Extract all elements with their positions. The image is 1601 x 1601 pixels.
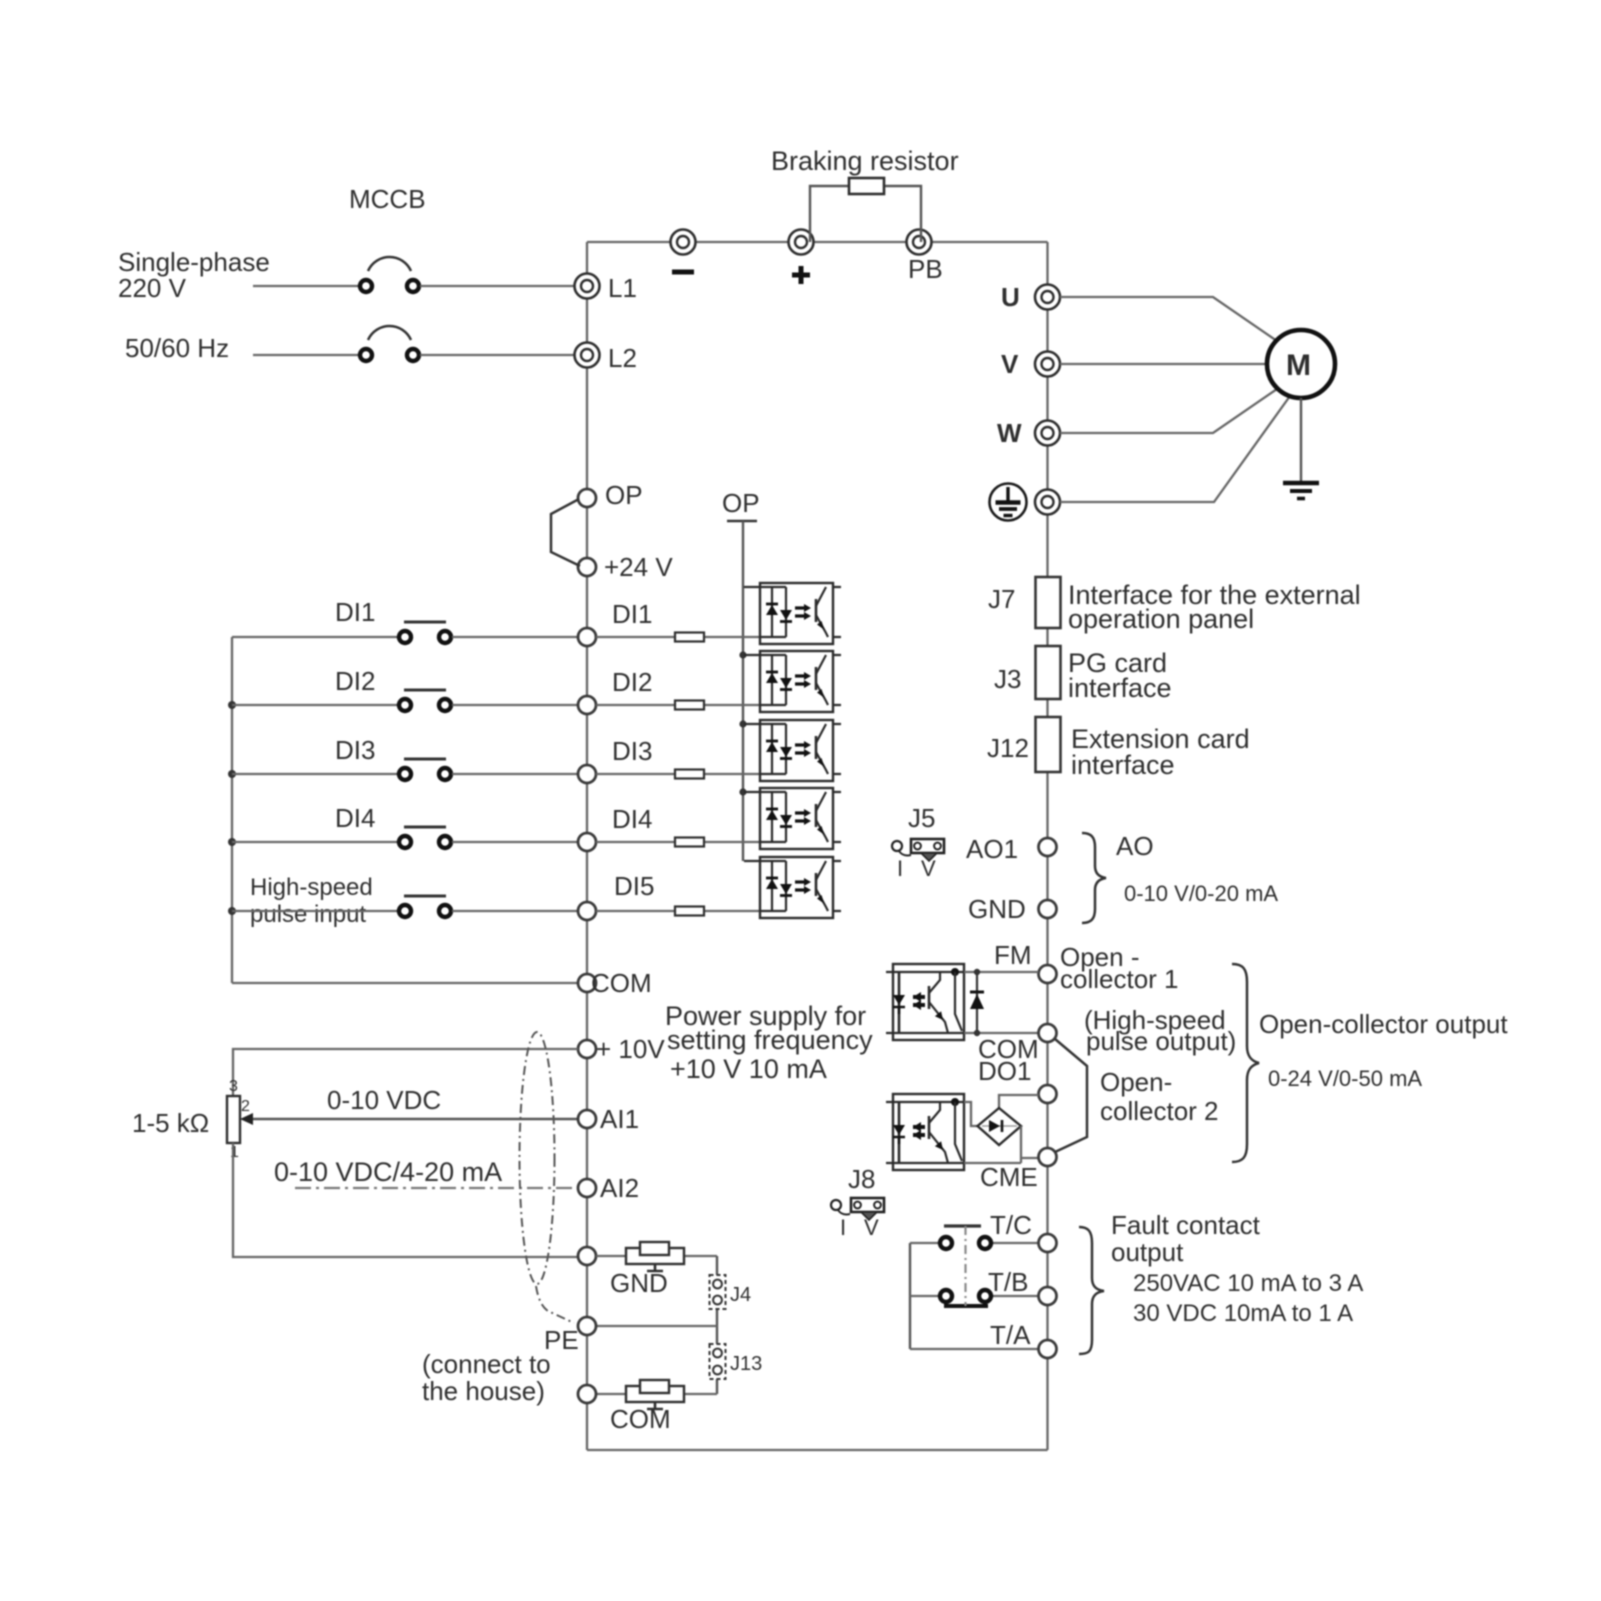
- svg-text:output: output: [1111, 1237, 1184, 1267]
- wire V to motor: [1060, 363, 1267, 365]
- label 250VAC rating: [1133, 1270, 1363, 1297]
- switch DI2: [228, 690, 578, 711]
- label Single-phase 220 V: [118, 247, 270, 303]
- svg-text:DI5: DI5: [614, 871, 654, 901]
- connector J3: [994, 646, 1061, 699]
- optocoupler DI1: [744, 583, 841, 644]
- wire FM emitter to COM: [964, 1032, 1039, 1034]
- brace fault contact group: [1079, 1227, 1104, 1354]
- label MCCB: [349, 184, 426, 214]
- diode bridge DO1: [978, 1108, 1022, 1145]
- node OP tie bar: [722, 488, 760, 521]
- svg-text:J13: J13: [730, 1353, 762, 1375]
- terminal COM bottom: [578, 1385, 671, 1434]
- terminal L1: [575, 273, 637, 303]
- label Fault contact output: [1111, 1210, 1261, 1267]
- optocoupler DI5: [744, 857, 841, 918]
- terminal L2: [575, 343, 637, 374]
- wire FM collector: [964, 971, 1039, 973]
- breaker MCCB pole 2: [360, 326, 419, 361]
- label Extension card interface: [1071, 724, 1250, 780]
- svg-text:DI2: DI2: [612, 667, 652, 697]
- svg-text:Open-: Open-: [1100, 1067, 1172, 1097]
- label Braking resistor: [771, 146, 959, 176]
- svg-text:Braking resistor: Braking resistor: [771, 146, 959, 176]
- label AO: [1116, 831, 1154, 861]
- terminal DI3: [578, 736, 652, 783]
- svg-text:setting frequency: setting frequency: [667, 1025, 873, 1055]
- brace open-collector output group: [1232, 964, 1259, 1162]
- node junction DI2 opto: [739, 651, 746, 658]
- svg-text:COM: COM: [591, 968, 652, 998]
- svg-text:High-speed: High-speed: [250, 874, 373, 901]
- svg-text:M: M: [1286, 349, 1311, 382]
- svg-text:DI2: DI2: [335, 666, 375, 696]
- terminal GND analog: [578, 1247, 668, 1298]
- resistor DI3: [596, 770, 760, 779]
- wire PE to motor: [1060, 396, 1290, 502]
- terminal plus: [789, 230, 814, 285]
- optocoupler DI3: [744, 720, 841, 781]
- terminal T/A: [990, 1320, 1057, 1358]
- node junction DI4 opto: [739, 788, 746, 795]
- svg-text:DI1: DI1: [612, 599, 652, 629]
- terminal AI1: [578, 1104, 639, 1134]
- label 30VDC rating: [1133, 1300, 1353, 1327]
- jumper J4: [710, 1275, 752, 1309]
- label Power supply for setting frequency: [665, 1001, 873, 1084]
- terminal W: [997, 418, 1060, 448]
- svg-text:the house): the house): [422, 1376, 545, 1406]
- terminal minus: [671, 230, 696, 273]
- label 1-5 kOhm: [132, 1108, 209, 1138]
- label PG card interface: [1068, 648, 1172, 703]
- terminal T/C: [990, 1210, 1057, 1252]
- svg-text:collector 2: collector 2: [1100, 1096, 1219, 1126]
- brace AO group: [1082, 833, 1106, 923]
- label 0-24V 0-50mA: [1268, 1066, 1422, 1091]
- terminal +24V: [578, 552, 673, 582]
- breaker MCCB pole 1: [360, 257, 419, 292]
- svg-text:DI3: DI3: [335, 735, 375, 765]
- label interface external operation panel: [1068, 580, 1361, 634]
- label DO1: [978, 1056, 1031, 1086]
- svg-text:OP: OP: [722, 488, 760, 518]
- label 0-10 VDC 4-20 mA: [274, 1157, 502, 1187]
- label Open-collector 1: [1060, 942, 1179, 994]
- label DI2 switch: [335, 666, 375, 696]
- terminal PE output: [1035, 490, 1060, 515]
- svg-text:Fault contact: Fault contact: [1111, 1210, 1261, 1240]
- svg-text:AO: AO: [1116, 831, 1154, 861]
- svg-text:interface: interface: [1071, 750, 1175, 780]
- switch selector OP/+24V: [551, 499, 580, 566]
- connector J12: [987, 717, 1061, 772]
- svg-text:DI4: DI4: [612, 804, 652, 834]
- svg-text:interface: interface: [1068, 673, 1172, 703]
- wire right terminal bus: [1046, 242, 1048, 1450]
- label 0-10V 0-20mA: [1124, 881, 1278, 906]
- label DI1 switch: [335, 597, 375, 627]
- terminal DI2: [578, 667, 652, 714]
- terminal AI2: [578, 1173, 639, 1203]
- filter GND: [596, 1242, 717, 1271]
- wire DI left bus: [231, 637, 233, 983]
- svg-text:GND: GND: [968, 894, 1026, 924]
- svg-text:+10 V 10 mA: +10 V 10 mA: [670, 1054, 827, 1084]
- svg-text:AI2: AI2: [600, 1173, 639, 1203]
- terminal V: [1001, 349, 1060, 379]
- svg-text:MCCB: MCCB: [349, 184, 426, 214]
- switch DI3: [228, 759, 578, 780]
- switch DI4: [228, 827, 578, 848]
- svg-text:CME: CME: [980, 1162, 1038, 1192]
- svg-text:220 V: 220 V: [118, 273, 187, 303]
- terminal T/B: [988, 1267, 1057, 1305]
- connector J7: [988, 577, 1061, 628]
- svg-text:3: 3: [229, 1078, 238, 1095]
- jumper J5: [892, 803, 944, 881]
- terminal COM digital: [578, 968, 652, 998]
- wire W to motor: [1060, 389, 1277, 433]
- svg-text:50/60 Hz: 50/60 Hz: [125, 333, 229, 363]
- terminal DI4: [578, 804, 652, 851]
- resistor DI2: [596, 701, 760, 710]
- terminal GND analog out: [968, 894, 1057, 924]
- label 0-10 VDC: [327, 1085, 441, 1115]
- svg-text:J5: J5: [908, 803, 935, 833]
- wire AI1 wiper: [240, 1113, 578, 1125]
- wire +10V to potentiometer: [233, 1049, 578, 1096]
- jumper J13: [710, 1344, 763, 1379]
- ground symbol protective earth circle: [990, 484, 1027, 521]
- svg-text:+24 V: +24 V: [604, 552, 673, 582]
- svg-text:COM: COM: [610, 1404, 671, 1434]
- optocoupler FM output: [886, 964, 964, 1040]
- diode FM clamp: [970, 969, 984, 1036]
- wire OP vertical rail: [742, 521, 744, 861]
- label High-speed pulse output: [1084, 1005, 1236, 1056]
- svg-text:0-10 VDC/4-20 mA: 0-10 VDC/4-20 mA: [274, 1157, 502, 1187]
- svg-text:+ 10V: + 10V: [596, 1034, 665, 1064]
- bracket Open-collector 2 group: [1055, 1039, 1087, 1152]
- svg-text:J4: J4: [730, 1284, 751, 1306]
- label FM: [994, 940, 1032, 970]
- relay fault contact: [910, 1226, 1039, 1349]
- label Open-collector 2: [1100, 1067, 1219, 1126]
- terminal U: [1001, 282, 1060, 312]
- label 50/60 Hz: [125, 333, 229, 363]
- wire bottom bus: [587, 1449, 1048, 1451]
- svg-text:collector 1: collector 1: [1060, 964, 1179, 994]
- ground motor: [1283, 398, 1319, 499]
- switch DI5 high-speed: [228, 896, 578, 917]
- wire L2 to drive: [420, 354, 575, 356]
- wire top DC bus: [587, 241, 1048, 243]
- terminal CME: [980, 1148, 1057, 1192]
- svg-text:AI1: AI1: [600, 1104, 639, 1134]
- optocoupler DO1 output: [886, 1094, 964, 1170]
- svg-text:W: W: [997, 418, 1022, 448]
- svg-text:0-10 V/0-20 mA: 0-10 V/0-20 mA: [1124, 881, 1278, 906]
- wire AI2 dashed: [295, 1187, 578, 1189]
- svg-text:AO1: AO1: [966, 834, 1018, 864]
- svg-text:DI3: DI3: [612, 736, 652, 766]
- svg-text:pulse output): pulse output): [1086, 1026, 1236, 1056]
- terminal +10V: [578, 1034, 665, 1064]
- resistor DI1: [596, 633, 760, 642]
- optocoupler DI4: [744, 788, 841, 849]
- svg-text:J7: J7: [988, 584, 1015, 614]
- svg-text:Open-collector output: Open-collector output: [1259, 1009, 1508, 1039]
- terminal DO1: [1039, 1085, 1057, 1103]
- terminal DI1: [578, 599, 652, 646]
- wire diamond to CME: [964, 1126, 1039, 1163]
- wire jumper chain vertical: [716, 1256, 718, 1394]
- svg-text:J3: J3: [994, 664, 1021, 694]
- svg-text:operation panel: operation panel: [1068, 604, 1254, 634]
- svg-text:I: I: [897, 856, 903, 881]
- svg-text:J8: J8: [848, 1164, 875, 1194]
- svg-text:1-5 kΩ: 1-5 kΩ: [132, 1108, 209, 1138]
- wire DO1 terminal lead: [999, 1095, 1039, 1108]
- terminal DI5: [578, 871, 654, 920]
- svg-text:0-24 V/0-50 mA: 0-24 V/0-50 mA: [1268, 1066, 1422, 1091]
- svg-text:OP: OP: [605, 480, 643, 510]
- svg-text:T/B: T/B: [988, 1267, 1028, 1297]
- svg-text:1: 1: [230, 1144, 239, 1161]
- wire L1 to drive: [420, 285, 575, 287]
- potentiometer 1-5k: [227, 1078, 250, 1161]
- svg-text:pulse input: pulse input: [250, 901, 366, 928]
- label DI4 switch: [335, 803, 375, 833]
- svg-text:T/C: T/C: [990, 1210, 1032, 1240]
- svg-text:DI1: DI1: [335, 597, 375, 627]
- label connect to the house: [422, 1349, 551, 1406]
- label Open-collector output: [1259, 1009, 1508, 1039]
- svg-text:PB: PB: [908, 254, 943, 284]
- resistor DI4: [596, 838, 760, 847]
- terminal PE: [544, 1317, 596, 1355]
- wire PE row: [596, 1325, 717, 1327]
- resistor braking: [810, 178, 921, 242]
- wire DO1 collector to diamond: [964, 1102, 978, 1126]
- svg-text:V: V: [1001, 349, 1019, 379]
- jumper J8: [831, 1164, 884, 1240]
- svg-text:250VAC 10 mA to 3 A: 250VAC 10 mA to 3 A: [1133, 1270, 1363, 1297]
- svg-text:V: V: [921, 856, 936, 881]
- shield cable screen: [520, 1032, 575, 1323]
- node junction DI3 opto: [739, 720, 746, 727]
- svg-text:L2: L2: [608, 343, 637, 373]
- label High-speed pulse input: [250, 874, 373, 928]
- terminal COM output: [978, 1024, 1057, 1064]
- wire left terminal bus: [586, 242, 588, 1450]
- svg-text:V: V: [864, 1215, 879, 1240]
- wire COM return: [232, 982, 578, 984]
- label DI3 switch: [335, 735, 375, 765]
- terminal PB: [907, 230, 943, 285]
- svg-text:GND: GND: [610, 1268, 668, 1298]
- terminal AO1: [966, 834, 1057, 864]
- terminal OP: [578, 480, 643, 510]
- filter COM: [596, 1380, 717, 1409]
- svg-text:0-10 VDC: 0-10 VDC: [327, 1085, 441, 1115]
- wire potentiometer to GND: [233, 1143, 578, 1257]
- resistor DI5: [596, 907, 760, 916]
- wire U to motor: [1060, 297, 1277, 341]
- svg-text:2: 2: [241, 1098, 250, 1115]
- svg-text:30 VDC 10mA to 1 A: 30 VDC 10mA to 1 A: [1133, 1300, 1353, 1327]
- svg-text:L1: L1: [608, 273, 637, 303]
- optocoupler DI2: [744, 651, 841, 712]
- svg-text:DO1: DO1: [978, 1056, 1031, 1086]
- svg-text:J12: J12: [987, 733, 1029, 763]
- svg-text:T/A: T/A: [990, 1320, 1031, 1350]
- svg-text:I: I: [840, 1215, 846, 1240]
- svg-text:(connect to: (connect to: [422, 1349, 551, 1379]
- svg-text:FM: FM: [994, 940, 1032, 970]
- svg-text:DI4: DI4: [335, 803, 375, 833]
- motor M: [1267, 330, 1335, 398]
- svg-text:U: U: [1001, 282, 1020, 312]
- terminal FM: [1039, 965, 1057, 983]
- wire L1 input: [253, 285, 359, 287]
- wire L2 input: [253, 354, 359, 356]
- switch DI1: [232, 622, 578, 643]
